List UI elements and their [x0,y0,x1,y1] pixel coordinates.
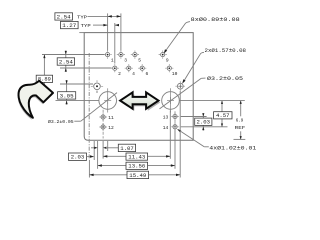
svg-text:3: 3 [124,57,127,63]
svg-text:6.9: 6.9 [236,117,244,123]
svg-text:Ø3.2±0.05: Ø3.2±0.05 [48,118,74,125]
svg-text:13: 13 [163,115,169,121]
pin 11 [99,113,107,121]
svg-text:11: 11 [108,115,114,121]
dim 3.05 [66,80,68,105]
pin column lines [102,110,104,139]
pin 13 [171,113,179,121]
dim 2.03 left [69,153,87,160]
dim 1.07 [91,147,94,149]
svg-text:3.05: 3.05 [60,93,74,99]
svg-text:14: 14 [163,125,169,131]
ext verticals bottom [88,160,90,178]
ext lines right [181,116,207,118]
pin 5 [131,51,139,59]
svg-text:9: 9 [166,57,169,63]
dim 1.27 TYP [93,24,108,26]
mounting hole left dia3.2 [99,92,117,110]
dim 4.57 [221,101,223,127]
dim 2.54 left [65,51,67,73]
svg-text:6: 6 [146,71,149,77]
pin 3 [117,51,125,59]
svg-text:2.03: 2.03 [197,120,211,126]
svg-text:8xØ0.89±0.08: 8xØ0.89±0.08 [191,16,240,23]
svg-text:15.49: 15.49 [129,173,146,179]
pin 4 [125,64,133,72]
svg-text:13.56: 13.56 [128,164,145,170]
dim 2.54 TYP [88,15,121,17]
svg-text:1.27: 1.27 [62,23,76,29]
ext line pin1 [107,13,109,50]
dim 8.89 [43,55,45,101]
svg-text:REF: REF [235,125,246,131]
svg-text:2: 2 [118,71,121,77]
svg-text:4xØ1.02±0.01: 4xØ1.02±0.01 [209,144,256,151]
pin 1.57 left [91,80,103,92]
dim 15.49 [89,174,127,176]
pin 6 [138,64,146,72]
mounting hole right dia3.2 [162,92,180,110]
dim 6.9 REF [240,101,242,117]
svg-text:TYP: TYP [77,15,87,21]
svg-text:1: 1 [111,57,114,63]
pin 1 [104,51,112,59]
pin 14 [171,123,179,131]
svg-text:2.03: 2.03 [71,155,85,161]
clipart curved arrow [18,83,52,120]
ext line pin3 [120,13,122,50]
svg-text:11.43: 11.43 [128,155,145,161]
top-left edge tick [79,32,84,34]
ext lines left [42,54,105,56]
svg-text:2xØ1.57±0.08: 2xØ1.57±0.08 [205,47,247,54]
svg-text:TYP: TYP [81,23,91,29]
svg-text:2.54: 2.54 [59,59,73,65]
pin 10 [165,64,173,72]
pin 2 [111,64,119,72]
svg-text:4.57: 4.57 [216,113,230,119]
svg-text:4: 4 [132,71,135,77]
dim 2.03 right [202,113,204,131]
pin 1.57 right [175,81,185,91]
svg-text:1.07: 1.07 [120,146,134,152]
package outline [84,33,193,141]
centerline datum [88,53,90,160]
svg-text:Ø3.2±0.05: Ø3.2±0.05 [207,75,243,82]
svg-text:2.54: 2.54 [57,14,71,20]
dim 13.56 [98,165,126,167]
pin 12 [99,123,107,131]
dim 11.43 [103,155,126,157]
ext line pin2 [114,23,116,64]
svg-text:10: 10 [172,71,178,77]
svg-text:12: 12 [108,125,114,131]
pin 9 [159,51,167,59]
svg-text:5: 5 [138,57,141,63]
